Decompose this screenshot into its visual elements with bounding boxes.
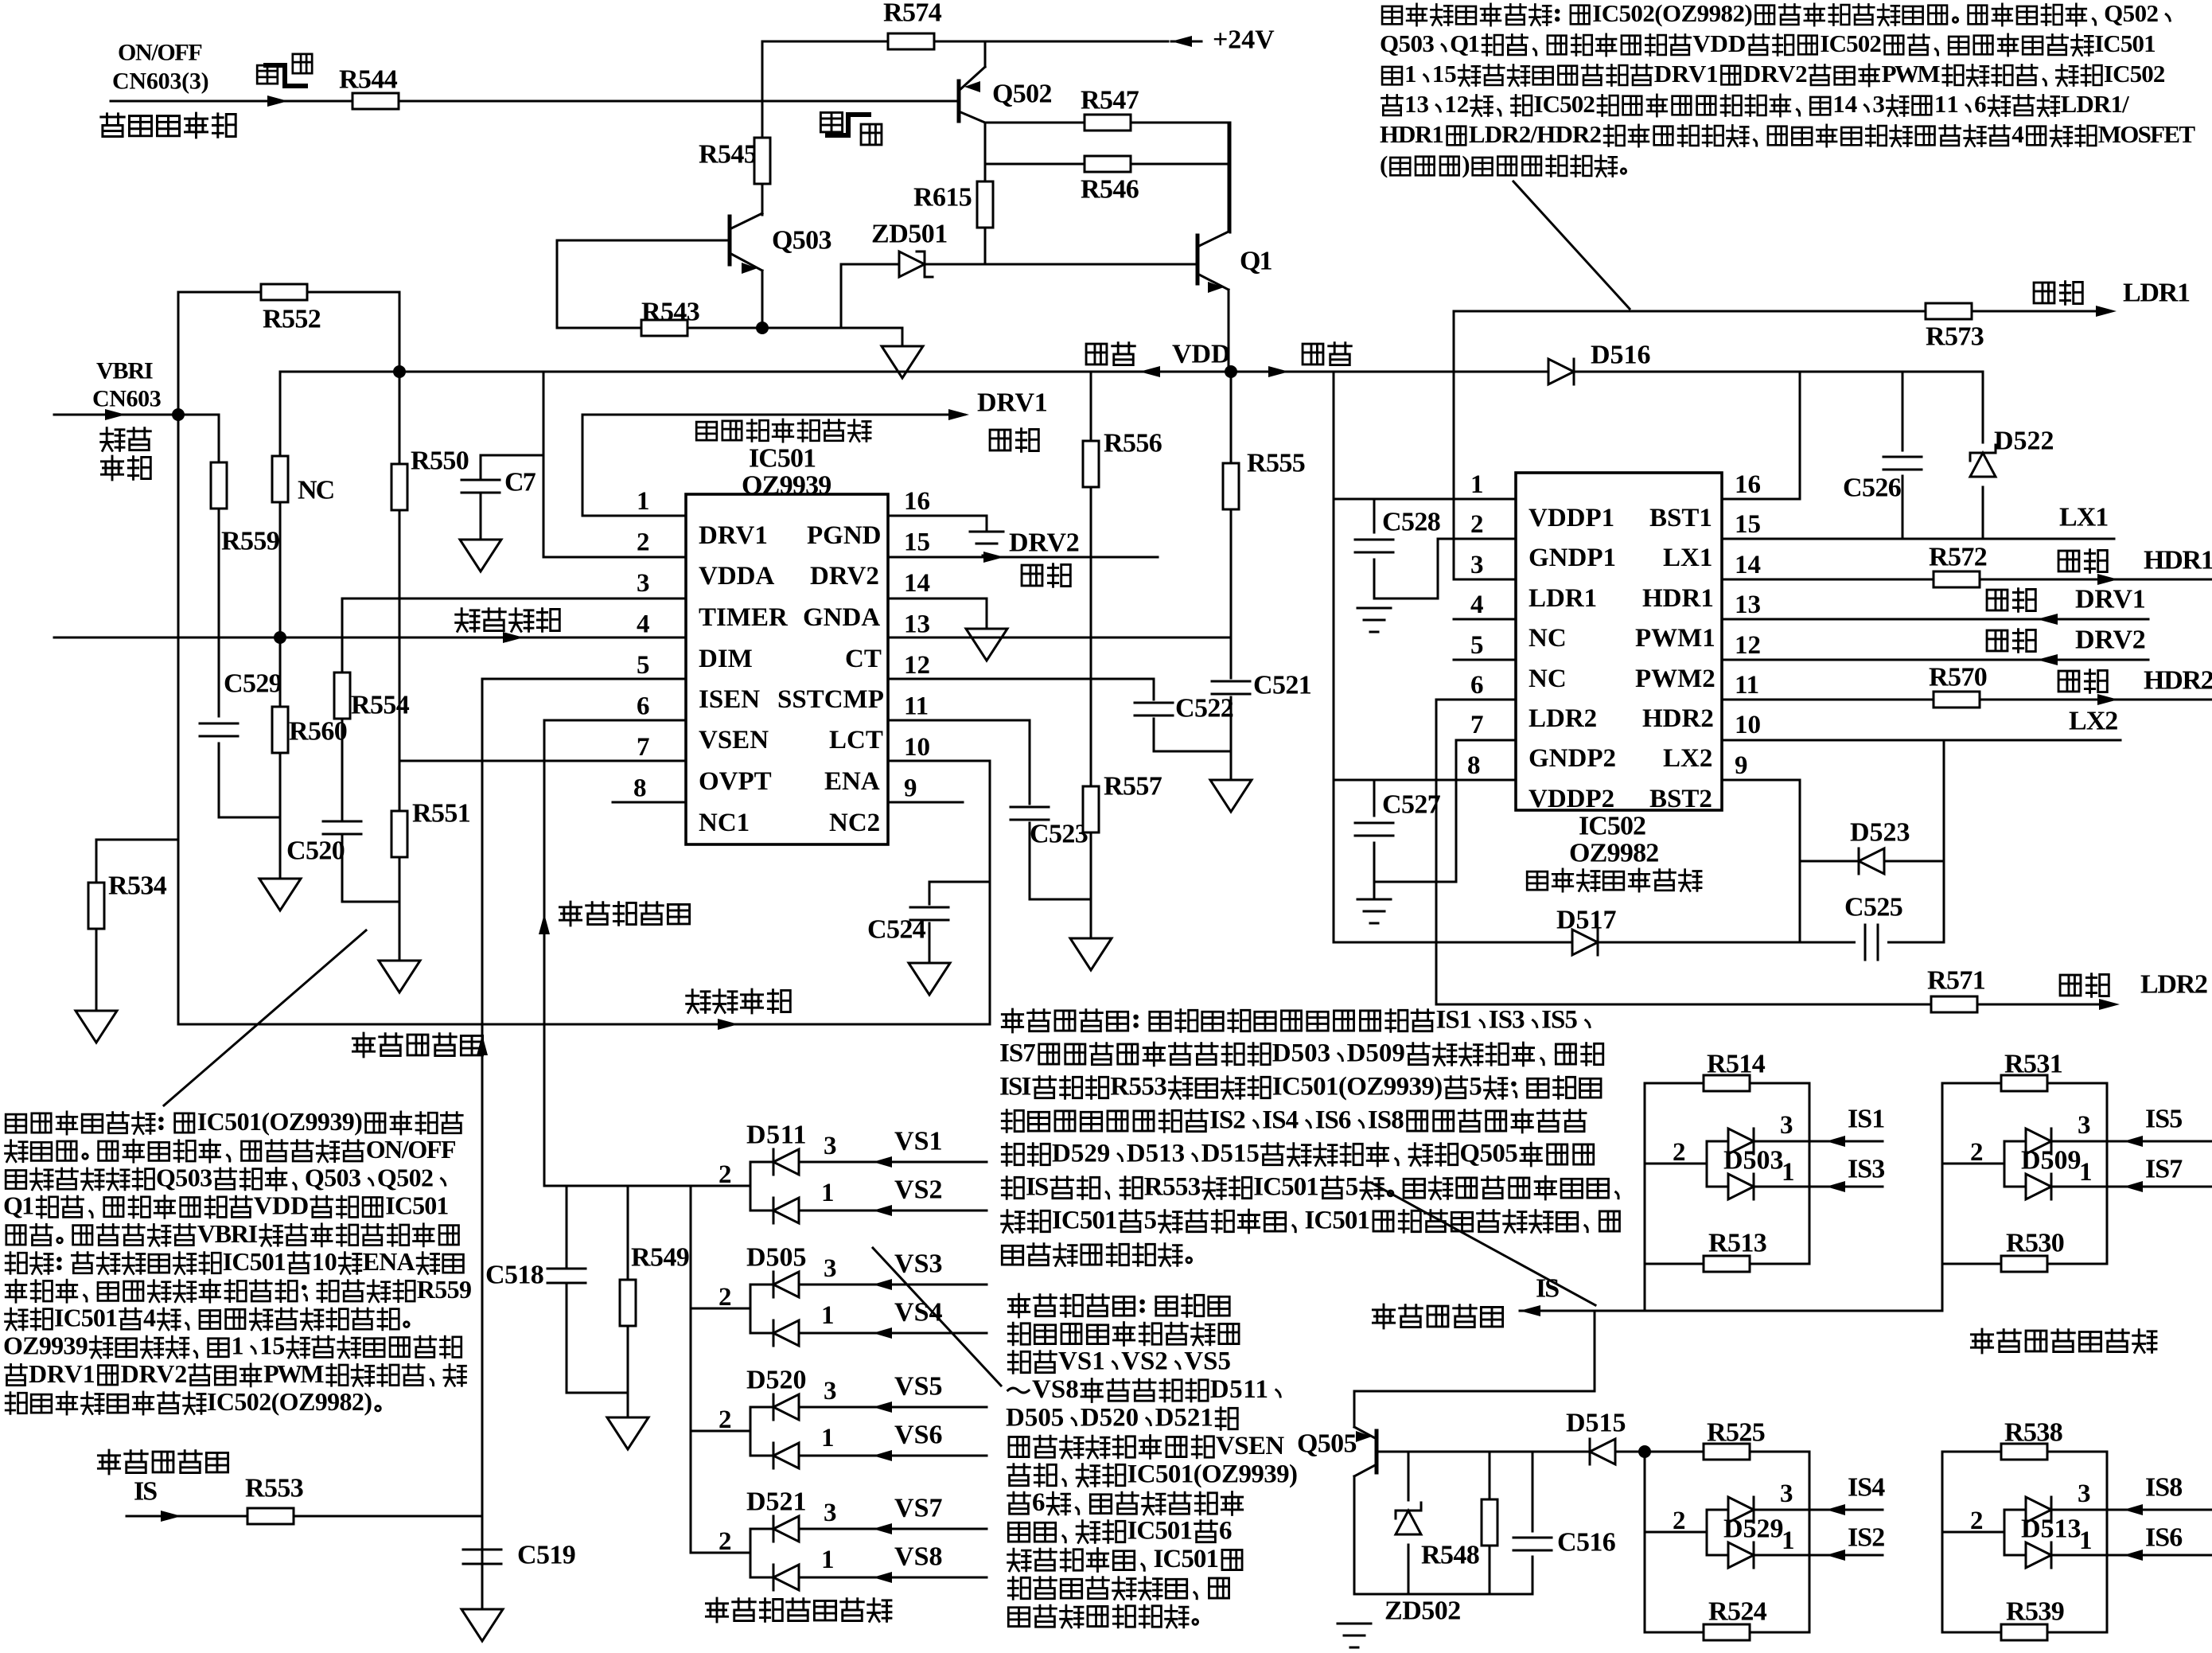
- label 过电流保护 IS input: [98, 1450, 119, 1474]
- svg-text:1: 1: [2079, 1158, 2093, 1187]
- svg-text:DRV2: DRV2: [810, 562, 879, 591]
- resistor R560: [279, 637, 282, 707]
- wire pin1 DRV1 output loop: [582, 515, 686, 517]
- svg-text:D529: D529: [1723, 1515, 1784, 1544]
- capacitor C520: [323, 821, 361, 823]
- resistor R553: [127, 1515, 482, 1518]
- svg-text:Q1: Q1: [1240, 247, 1273, 276]
- svg-text:C7: C7: [504, 468, 536, 497]
- svg-text:5: 5: [1470, 631, 1484, 660]
- svg-text:5: 5: [1346, 1173, 1359, 1202]
- wire pin7 OVPT: [399, 760, 686, 762]
- svg-text:IS2: IS2: [1848, 1523, 1885, 1553]
- resistor NC: [279, 372, 282, 456]
- svg-text:C518: C518: [485, 1261, 544, 1290]
- svg-text:VDD: VDD: [254, 1191, 309, 1220]
- svg-text:R549: R549: [631, 1243, 690, 1273]
- ground below Q505: [1338, 1623, 1371, 1625]
- svg-text:R556: R556: [1104, 429, 1162, 458]
- svg-text:R524: R524: [1708, 1597, 1767, 1627]
- svg-text:15: 15: [1432, 60, 1457, 88]
- svg-text:IS: IS: [1536, 1274, 1560, 1304]
- svg-text:3: 3: [824, 1377, 837, 1405]
- svg-text:VDD: VDD: [1692, 29, 1746, 57]
- svg-text:DRV1: DRV1: [29, 1359, 95, 1388]
- svg-text:R525: R525: [1707, 1418, 1766, 1448]
- wire pin12 SSTCMP: [888, 678, 1154, 680]
- ground below R557: [1070, 938, 1112, 970]
- svg-text:15: 15: [259, 1331, 285, 1360]
- svg-text:5: 5: [637, 651, 650, 680]
- wire pin15 DRV2 output: [888, 556, 1158, 559]
- svg-text:GNDP2: GNDP2: [1529, 744, 1616, 773]
- diode D517: [1334, 942, 1944, 944]
- zener diode ZD502: [1408, 1452, 1410, 1500]
- svg-text:C528: C528: [1382, 508, 1441, 537]
- diode D515: [1590, 1439, 1615, 1464]
- label 过电流保护电路: [1971, 1329, 1992, 1353]
- svg-text:PWM: PWM: [1882, 60, 1941, 88]
- svg-text:D520: D520: [1081, 1404, 1139, 1433]
- svg-text:D503: D503: [1272, 1039, 1330, 1068]
- label 逆变器控制: [101, 114, 124, 137]
- svg-text:NC: NC: [1529, 624, 1567, 653]
- svg-text:IC501: IC501: [2094, 29, 2156, 57]
- wire pin13 CT: [888, 637, 1231, 639]
- svg-text:VS8: VS8: [894, 1542, 943, 1572]
- svg-text:PWM2: PWM2: [1635, 665, 1715, 693]
- svg-text:DRV1: DRV1: [2075, 585, 2146, 614]
- svg-text:LDR1: LDR1: [1529, 584, 1597, 613]
- ground below C521: [1210, 780, 1252, 812]
- svg-text:IC501: IC501: [749, 444, 816, 474]
- svg-text:12: 12: [1735, 631, 1761, 660]
- svg-text:13: 13: [1735, 591, 1761, 619]
- svg-text:DRV1: DRV1: [699, 521, 768, 550]
- svg-text:1: 1: [232, 1331, 244, 1360]
- diode D513 pair: [1941, 1452, 1944, 1632]
- svg-text:D517: D517: [1556, 906, 1617, 935]
- svg-text:R531: R531: [2004, 1050, 2063, 1079]
- svg-text:D511: D511: [746, 1121, 807, 1150]
- svg-text:GNDP1: GNDP1: [1529, 544, 1616, 572]
- svg-text:R572: R572: [1929, 543, 1988, 572]
- svg-text:OZ9982: OZ9982: [1569, 839, 1659, 868]
- svg-text:8: 8: [1467, 751, 1481, 780]
- wire pin5 ISEN: [482, 678, 686, 680]
- resistor R550: [399, 372, 401, 464]
- wire VDDA branch: [543, 372, 545, 557]
- wire pin13 PWM1 DRV1 input: [1722, 618, 2148, 621]
- svg-text:VS6: VS6: [894, 1421, 943, 1450]
- svg-text:16: 16: [1735, 470, 1761, 499]
- wire pin7 GNDP2: [1456, 739, 1516, 742]
- transistor Q503: [557, 240, 730, 242]
- wire LDR1 vertical: [1453, 311, 1455, 579]
- svg-text:IS6: IS6: [1315, 1106, 1352, 1135]
- capacitor C526: [1902, 372, 1904, 450]
- svg-text:D521: D521: [1155, 1404, 1213, 1433]
- svg-text:IS7: IS7: [2145, 1155, 2183, 1184]
- svg-text:Q503: Q503: [1380, 29, 1435, 57]
- wire DIM line 亮度调整: [54, 637, 686, 639]
- svg-text:C525: C525: [1844, 893, 1903, 922]
- resistor R552: [178, 291, 399, 294]
- svg-text:LDR2: LDR2: [2140, 970, 2208, 1000]
- svg-text:R553: R553: [1144, 1173, 1201, 1202]
- capacitor C525: [1856, 930, 1887, 955]
- zener diode D522: [1982, 372, 1984, 442]
- diode D520 pair: [691, 1430, 750, 1433]
- svg-text:6: 6: [1470, 671, 1484, 700]
- wire Q503 base left leg: [556, 240, 559, 328]
- svg-text:C522: C522: [1175, 694, 1234, 723]
- svg-text:C529: C529: [224, 669, 282, 699]
- svg-text:CT: CT: [845, 645, 882, 673]
- svg-text:1: 1: [2079, 1526, 2093, 1555]
- diode D503 pair: [1644, 1083, 1646, 1264]
- svg-text:VS8: VS8: [1032, 1375, 1079, 1404]
- svg-text:NC1: NC1: [699, 809, 750, 837]
- wire VSEN to D511: [544, 1185, 750, 1187]
- svg-text:): ): [1462, 150, 1470, 178]
- svg-text:ON/OFF: ON/OFF: [118, 39, 203, 65]
- svg-text:HDR2: HDR2: [2144, 666, 2212, 696]
- svg-text:4: 4: [637, 610, 650, 639]
- wire ISEN column: [481, 679, 484, 1609]
- svg-text:R559: R559: [417, 1275, 472, 1304]
- svg-text:CN603: CN603: [92, 385, 162, 411]
- svg-text:2: 2: [637, 528, 650, 557]
- svg-text:D516: D516: [1591, 341, 1651, 370]
- svg-text:R513: R513: [1708, 1229, 1767, 1258]
- svg-text:3: 3: [1780, 1111, 1793, 1140]
- svg-text:R574: R574: [883, 0, 942, 28]
- switch waveform symbol near Q502: [820, 112, 842, 131]
- wire pin8 VDDP2: [1334, 779, 1516, 782]
- svg-text:R571: R571: [1927, 966, 1986, 996]
- annotation paragraph half-to-full-bridge: [1382, 6, 1402, 24]
- capacitor C523: [1029, 720, 1031, 804]
- svg-text:3: 3: [637, 569, 650, 598]
- wire pin1 VDDP1: [1333, 372, 1335, 942]
- svg-text:1: 1: [1782, 1526, 1795, 1555]
- svg-text:DRV1: DRV1: [1654, 60, 1719, 88]
- svg-text:11: 11: [1934, 90, 1959, 118]
- svg-text:4: 4: [143, 1303, 156, 1331]
- wire D509 block to IS line: [1941, 1264, 1944, 1311]
- svg-text:1: 1: [1782, 1158, 1795, 1187]
- svg-text:IC502(OZ9982): IC502(OZ9982): [207, 1387, 372, 1416]
- svg-text:VS2: VS2: [894, 1175, 943, 1205]
- svg-text:R514: R514: [1707, 1050, 1766, 1079]
- svg-text:IC501(OZ9939): IC501(OZ9939): [1127, 1460, 1299, 1489]
- resistor R557: [1090, 679, 1092, 786]
- svg-text:15: 15: [904, 528, 930, 557]
- svg-text:2: 2: [1970, 1507, 1984, 1535]
- resistor R548: [1489, 1452, 1491, 1499]
- svg-text:R546: R546: [1081, 175, 1139, 205]
- wire Q505 base line: [1377, 1451, 1590, 1453]
- svg-text:2: 2: [1970, 1138, 1984, 1167]
- svg-text:PWM1: PWM1: [1635, 624, 1715, 653]
- svg-text:VS7: VS7: [894, 1494, 943, 1523]
- annotation paragraph overcurrent-protection: [1002, 1009, 1022, 1032]
- svg-text:VS1: VS1: [894, 1127, 943, 1156]
- svg-text:R548: R548: [1421, 1541, 1480, 1570]
- svg-text:D522: D522: [1994, 427, 2054, 456]
- annotation line to IC502: [1513, 181, 1630, 309]
- wire pin2 GNDP1: [1438, 538, 1516, 540]
- svg-text:16: 16: [904, 487, 930, 516]
- svg-text:5: 5: [1469, 1073, 1482, 1101]
- svg-text:VBRI: VBRI: [96, 357, 154, 384]
- svg-text:LDR2/HDR2: LDR2/HDR2: [1469, 120, 1602, 148]
- svg-text:VDDP2: VDDP2: [1529, 785, 1614, 813]
- svg-text:VS2: VS2: [1121, 1347, 1168, 1376]
- transistor Q502: [957, 81, 961, 121]
- svg-text:IS8: IS8: [2145, 1473, 2183, 1503]
- svg-text:R553: R553: [245, 1474, 304, 1503]
- svg-text:D513: D513: [1127, 1140, 1185, 1168]
- wire pin6 LDR2: [1436, 699, 1516, 701]
- resistor R530: [1942, 1263, 2107, 1265]
- annotation line to IS circuit: [1371, 1183, 1595, 1305]
- svg-text:1: 1: [821, 1179, 835, 1207]
- svg-text:IC501: IC501: [1052, 1207, 1118, 1235]
- resistor R531: [1942, 1082, 2107, 1085]
- svg-text:9: 9: [1735, 751, 1748, 780]
- transistor Q505: [1375, 1431, 1379, 1472]
- resistor R551: [399, 761, 401, 811]
- svg-text:NC2: NC2: [829, 809, 880, 837]
- ground below C527: [1357, 899, 1391, 901]
- capacitor C521: [1230, 637, 1233, 678]
- svg-text:IS7: IS7: [999, 1039, 1036, 1068]
- svg-text:3: 3: [1780, 1480, 1793, 1508]
- wire R547/R546 right leg: [1229, 123, 1232, 232]
- svg-text:VSEN: VSEN: [699, 726, 769, 754]
- svg-text:IS3: IS3: [1489, 1006, 1525, 1035]
- svg-text:2: 2: [719, 1405, 732, 1434]
- svg-text:HDR1: HDR1: [1642, 584, 1714, 613]
- svg-text:ISEN: ISEN: [699, 685, 760, 714]
- svg-text:IS4: IS4: [1848, 1473, 1885, 1503]
- svg-text:R573: R573: [1926, 322, 1984, 352]
- svg-text:+24V: +24V: [1213, 25, 1275, 55]
- svg-text:IS6: IS6: [2145, 1523, 2183, 1553]
- resistor R514: [1645, 1082, 1809, 1085]
- svg-text:IS2: IS2: [1209, 1106, 1246, 1135]
- svg-text:15: 15: [1735, 510, 1761, 539]
- svg-text:IS1: IS1: [1848, 1105, 1885, 1134]
- resistor R539: [1942, 1632, 2107, 1634]
- wire R574 left leg: [761, 41, 764, 101]
- svg-text:D529: D529: [1052, 1140, 1110, 1168]
- svg-text:D509: D509: [1347, 1039, 1405, 1068]
- svg-text:Q503: Q503: [305, 1163, 361, 1191]
- wire pin3 LDR1: [1454, 579, 1516, 581]
- wire pin8 NC1 stub: [613, 801, 686, 804]
- ground below R549: [607, 1417, 648, 1449]
- svg-text:ENA: ENA: [824, 767, 880, 796]
- svg-text:R550: R550: [411, 446, 469, 476]
- svg-text:Q1: Q1: [3, 1191, 34, 1220]
- svg-text:IS8: IS8: [1368, 1106, 1404, 1135]
- svg-text:13: 13: [904, 610, 930, 639]
- svg-text:IC502: IC502: [1820, 29, 1882, 57]
- svg-text:DRV1: DRV1: [977, 388, 1048, 418]
- svg-text:10: 10: [904, 733, 930, 762]
- svg-text:IS4: IS4: [1262, 1106, 1299, 1135]
- svg-text:10: 10: [1735, 711, 1761, 739]
- svg-text:IC501: IC501: [223, 1247, 286, 1276]
- resistor R554: [342, 598, 686, 600]
- ground below C7: [460, 540, 501, 571]
- svg-text:C526: C526: [1843, 474, 1902, 503]
- wire pin11 LCT: [888, 719, 1030, 722]
- svg-text:3: 3: [1872, 90, 1885, 118]
- svg-text:VDDA: VDDA: [699, 562, 774, 591]
- svg-text:LDR1: LDR1: [2123, 279, 2191, 308]
- svg-text:C527: C527: [1382, 790, 1441, 820]
- svg-text:14: 14: [904, 569, 930, 598]
- svg-text:D520: D520: [746, 1366, 807, 1395]
- svg-text:LX1: LX1: [2059, 503, 2109, 532]
- wire ON/OFF to Q502 base: [111, 100, 959, 103]
- svg-text:4: 4: [1470, 591, 1484, 619]
- svg-text:1: 1: [637, 487, 650, 516]
- svg-text:C519: C519: [517, 1541, 576, 1570]
- capacitor C522: [1153, 679, 1155, 700]
- svg-text:NC: NC: [1529, 665, 1567, 693]
- wire ENA lighting-control line: [178, 1023, 990, 1026]
- svg-text:IC501: IC501: [385, 1191, 449, 1220]
- node IS output: [1373, 1304, 1394, 1328]
- svg-text:TIMER: TIMER: [699, 603, 789, 632]
- svg-text:D505: D505: [1006, 1404, 1064, 1433]
- svg-text:11: 11: [1735, 671, 1759, 700]
- svg-text:14: 14: [1832, 90, 1857, 118]
- svg-text:R553: R553: [1110, 1073, 1167, 1101]
- svg-text:R560: R560: [289, 717, 348, 747]
- resistor R525: [1645, 1451, 1809, 1453]
- svg-text:R547: R547: [1081, 86, 1139, 115]
- svg-text:1: 1: [821, 1424, 835, 1452]
- wire VSEN overvoltage line: [543, 720, 546, 1186]
- op-amp U IC502 OZ9982 box: [1516, 473, 1722, 810]
- wire left bus: [177, 415, 180, 1024]
- svg-text:R545: R545: [699, 140, 757, 170]
- svg-text:C524: C524: [867, 915, 926, 945]
- svg-text:8: 8: [633, 774, 647, 803]
- wire pin15 LX1: [1722, 538, 2114, 540]
- svg-text:C516: C516: [1557, 1528, 1616, 1557]
- svg-text:C521: C521: [1253, 671, 1312, 700]
- ground below R543: [902, 328, 904, 346]
- svg-text:R554: R554: [351, 691, 410, 720]
- svg-text:R559: R559: [221, 527, 280, 556]
- svg-text:C523: C523: [1030, 820, 1088, 849]
- wire pin6 VSEN: [544, 719, 686, 722]
- svg-text:Q502: Q502: [2104, 0, 2159, 27]
- svg-text:3: 3: [824, 1254, 837, 1283]
- svg-text:ZD502: ZD502: [1384, 1596, 1461, 1626]
- resistor R555: [1230, 372, 1233, 463]
- wire pin10 ENA: [888, 760, 990, 762]
- diode D511 pair: [750, 1185, 752, 1187]
- svg-text:7: 7: [637, 733, 650, 762]
- wire VS group feeder: [690, 1186, 692, 1553]
- svg-text:IS5: IS5: [2145, 1105, 2183, 1134]
- svg-text:DIM: DIM: [699, 645, 753, 673]
- svg-text:1: 1: [821, 1546, 835, 1574]
- svg-text:(: (: [1380, 150, 1388, 178]
- svg-text:1: 1: [1404, 60, 1417, 88]
- svg-text:IS5: IS5: [1541, 1006, 1578, 1035]
- wire pin5 NC stub: [1454, 659, 1516, 661]
- wire +24V rail: [762, 41, 1168, 43]
- svg-text:2: 2: [1470, 510, 1484, 539]
- svg-text:3: 3: [1470, 551, 1484, 579]
- diode D529 pair: [1644, 1452, 1646, 1632]
- svg-text:3: 3: [824, 1132, 837, 1160]
- svg-text:DRV2: DRV2: [1743, 60, 1808, 88]
- svg-text:ISI: ISI: [999, 1073, 1031, 1101]
- svg-text:IS: IS: [1026, 1173, 1049, 1202]
- annotation paragraph overvoltage-protection: [1008, 1294, 1029, 1317]
- svg-text:LX2: LX2: [2069, 707, 2118, 736]
- svg-text:IC501(OZ9939): IC501(OZ9939): [197, 1107, 363, 1136]
- svg-text:Q502: Q502: [992, 80, 1053, 109]
- wire pin4 NC stub: [1454, 618, 1516, 621]
- svg-text:2: 2: [1673, 1507, 1686, 1535]
- svg-text:OVPT: OVPT: [699, 767, 772, 796]
- svg-text:IC501: IC501: [1127, 1517, 1194, 1546]
- transistor Q1: [1196, 236, 1200, 283]
- svg-text:IC502: IC502: [1533, 90, 1595, 118]
- svg-text:ON/OFF: ON/OFF: [366, 1135, 457, 1164]
- svg-text:7: 7: [1470, 711, 1484, 739]
- svg-text:PWM: PWM: [263, 1359, 324, 1388]
- svg-text:VS4: VS4: [894, 1298, 943, 1327]
- svg-text:IC502: IC502: [2104, 60, 2166, 88]
- svg-text:R534: R534: [108, 871, 167, 901]
- ground below C528: [1374, 598, 1438, 600]
- svg-text:13: 13: [1404, 90, 1429, 118]
- capacitor C7: [481, 454, 543, 457]
- resistor R524: [1645, 1632, 1809, 1634]
- wire pin10 LX2: [1722, 739, 2120, 742]
- svg-text:LX2: LX2: [1663, 744, 1712, 773]
- svg-text:R552: R552: [263, 305, 321, 334]
- svg-text:D523: D523: [1850, 818, 1910, 848]
- svg-text:DRV2: DRV2: [121, 1359, 188, 1388]
- wire pin16 PGND to ground: [888, 515, 987, 517]
- capacitor C528: [1373, 499, 1376, 532]
- svg-text:R551: R551: [412, 799, 471, 828]
- svg-text:Q1: Q1: [1450, 29, 1480, 57]
- svg-text:ENA: ENA: [363, 1247, 415, 1276]
- resistor R571 LDR2 output: [1436, 1004, 2113, 1006]
- svg-text:10: 10: [312, 1247, 337, 1276]
- svg-text:R555: R555: [1247, 449, 1306, 478]
- svg-text:NC: NC: [298, 476, 335, 505]
- svg-text:DRV2: DRV2: [1009, 528, 1080, 558]
- svg-text:14: 14: [1735, 551, 1761, 579]
- svg-text:11: 11: [904, 692, 929, 721]
- svg-text:12: 12: [904, 651, 930, 680]
